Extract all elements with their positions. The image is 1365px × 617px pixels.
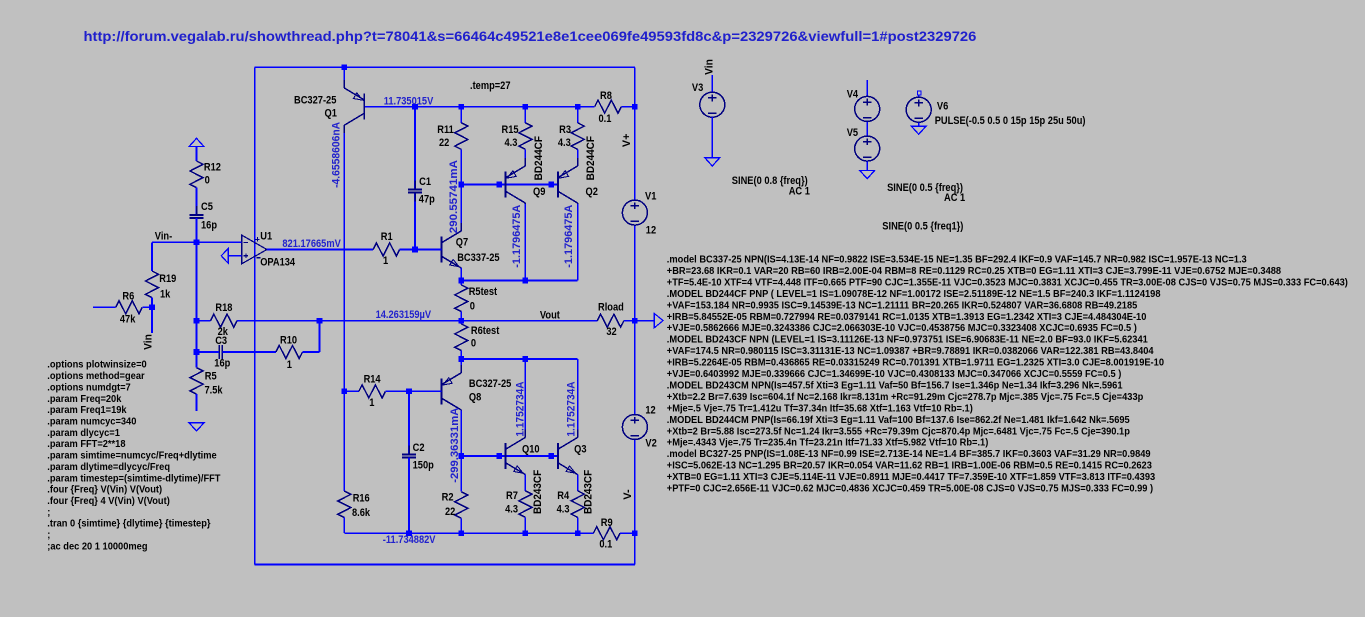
svg-text:R15: R15 bbox=[502, 124, 519, 136]
svg-text:1: 1 bbox=[287, 359, 292, 371]
svg-text:.param dlycyc=1: .param dlycyc=1 bbox=[47, 427, 120, 439]
transistor Q3 bbox=[557, 443, 559, 469]
voltage source V4 bbox=[855, 96, 880, 121]
resistor R16 bbox=[338, 491, 351, 518]
svg-text:R19: R19 bbox=[159, 273, 176, 285]
wire Q1 emitter to top border bbox=[343, 67, 345, 88]
wire op-amp output to R1 bbox=[267, 249, 373, 251]
svg-text:+Xtb=2 Br=5.88 Isc=273.5f Nc=1: +Xtb=2 Br=5.88 Isc=273.5f Nc=1.24 Ikr=3.… bbox=[667, 425, 1130, 437]
junction node (525.4,106.6) bbox=[523, 104, 529, 110]
capacitor C5 bbox=[189, 214, 203, 216]
svg-text:R6: R6 bbox=[122, 291, 134, 303]
svg-text:4.3: 4.3 bbox=[505, 137, 518, 149]
voltage source V2 bbox=[622, 415, 647, 440]
junction node (461.3,456) bbox=[459, 453, 465, 459]
wire right rail middle segment bbox=[634, 225, 636, 414]
svg-text:+Xtb=2.2 Br=7.639 Isc=604.1f N: +Xtb=2.2 Br=7.639 Isc=604.1f Nc=2.168 Ik… bbox=[667, 391, 1144, 403]
wire R6 left stub bbox=[93, 306, 116, 308]
svg-text:1k: 1k bbox=[160, 289, 171, 301]
svg-text:-299.36331mA: -299.36331mA bbox=[449, 408, 461, 483]
svg-text:0.1: 0.1 bbox=[599, 539, 612, 551]
svg-text:Q9: Q9 bbox=[533, 186, 545, 198]
svg-text:16p: 16p bbox=[214, 358, 230, 370]
svg-text:http://forum.vegalab.ru/showth: http://forum.vegalab.ru/showthread.php?t… bbox=[84, 28, 977, 44]
wire right rail lower segment bbox=[634, 440, 636, 534]
svg-text:.options plotwinsize=0: .options plotwinsize=0 bbox=[47, 359, 147, 371]
wire Q8 collector down to R2 bbox=[460, 410, 462, 491]
svg-text:32: 32 bbox=[606, 326, 616, 338]
wire R3 bottom to Q2 emitter bbox=[577, 149, 579, 166]
svg-text:R5: R5 bbox=[205, 370, 217, 382]
svg-text:821.17665mV: 821.17665mV bbox=[282, 238, 341, 250]
junction node (196.5,242.3) bbox=[194, 240, 200, 246]
svg-text:+Mje=.5 Vje=.75 Tr=1.412u Tf=3: +Mje=.5 Vje=.75 Tr=1.412u Tf=37.34n Itf=… bbox=[667, 402, 973, 414]
wire Q10 collector up bbox=[524, 359, 526, 438]
wire R10 up to Vout net bbox=[319, 321, 321, 352]
svg-text:.MODEL BD243CF NPN (LEVEL=1 IS: .MODEL BD243CF NPN (LEVEL=1 IS=3.11126E-… bbox=[667, 334, 1148, 346]
wire R5 top lead bbox=[196, 352, 198, 368]
svg-text:BC337-25: BC337-25 bbox=[457, 252, 499, 264]
svg-text:0: 0 bbox=[470, 300, 475, 312]
wire R15 top lead bbox=[524, 107, 526, 123]
svg-text:4.3: 4.3 bbox=[557, 504, 570, 516]
svg-text:290.55741mA: 290.55741mA bbox=[448, 160, 460, 233]
wire R11 top lead bbox=[460, 107, 462, 123]
wire R16 bottom lead bbox=[343, 518, 345, 534]
svg-text:22: 22 bbox=[445, 506, 455, 518]
transistor Q1 bbox=[363, 94, 365, 120]
svg-text:.param Freq1=19k: .param Freq1=19k bbox=[47, 404, 126, 416]
junction node (577.7,106.6) bbox=[575, 104, 581, 110]
wire R10 right lead bbox=[303, 351, 320, 353]
junction node (409,533.2) bbox=[406, 530, 412, 536]
wire R18 right to Vout net bbox=[237, 320, 597, 322]
op-amp U1 plus input mark bbox=[244, 255, 249, 257]
flag square above V6 bbox=[918, 91, 922, 95]
wire R5 bottom lead bbox=[196, 394, 198, 411]
voltage source V1 bbox=[622, 200, 647, 225]
svg-text:1: 1 bbox=[383, 255, 388, 267]
svg-text:C2: C2 bbox=[413, 442, 425, 454]
svg-text:R5test: R5test bbox=[469, 286, 498, 298]
wire R14 to Q8 base bbox=[385, 390, 441, 392]
svg-text:.MODEL BD244CF PNP ( LEVEL=1 I: .MODEL BD244CF PNP ( LEVEL=1 IS=1.09078E… bbox=[667, 288, 1161, 300]
svg-text:.tran 0 {simtime} {dlytime} {t: .tran 0 {simtime} {dlytime} {timestep} bbox=[47, 518, 210, 530]
svg-text:C3: C3 bbox=[215, 335, 227, 347]
wire Q10 Q3 base rail bbox=[461, 455, 558, 457]
wire C3 left lead bbox=[197, 351, 220, 353]
svg-text:R6test: R6test bbox=[471, 325, 500, 337]
resistor R5test bbox=[455, 285, 468, 312]
junction node (499.1,184.5) bbox=[496, 182, 502, 188]
svg-text:R9: R9 bbox=[601, 517, 613, 529]
svg-text:BD244CF: BD244CF bbox=[533, 136, 545, 181]
svg-text:;: ; bbox=[47, 506, 50, 518]
svg-text:Rload: Rload bbox=[598, 302, 624, 314]
wire Q3 emitter to R4 bbox=[577, 475, 579, 491]
resistor R9 bbox=[593, 527, 620, 540]
svg-text:+VAF=174.5 NR=0.980115 ISC=3.3: +VAF=174.5 NR=0.980115 ISC=3.31131E-13 N… bbox=[667, 345, 1154, 357]
wire R14 left junction to zigzag bbox=[344, 390, 359, 392]
svg-text:.param FFT=2**18: .param FFT=2**18 bbox=[47, 438, 125, 450]
svg-text:+BR=23.68 IKR=0.1 VAR=20 RB=60: +BR=23.68 IKR=0.1 VAR=20 RB=60 IRB=2.00E… bbox=[667, 265, 1281, 277]
wire Q3 collector up bbox=[577, 359, 579, 438]
junction node (196.5,352) bbox=[194, 349, 200, 355]
wire Q8 emitter lead bbox=[460, 359, 462, 373]
svg-text:+XTB=0 EG=1.11 XTI=3 CJE=5.114: +XTB=0 EG=1.11 XTI=3 CJE=5.114E-11 VJE=0… bbox=[667, 471, 1156, 483]
svg-text:V2: V2 bbox=[645, 437, 656, 449]
wire R18 left lead bbox=[197, 320, 211, 322]
svg-text:16p: 16p bbox=[201, 220, 217, 232]
svg-text:V4: V4 bbox=[847, 88, 859, 100]
junction node (344.3,67.3) bbox=[342, 65, 348, 71]
svg-text:-4.6558606nA: -4.6558606nA bbox=[330, 122, 342, 188]
svg-text:Vin: Vin bbox=[142, 334, 154, 350]
wire port to plus input bbox=[228, 255, 241, 257]
junction node (415,106.6) bbox=[412, 104, 418, 110]
svg-text:Vin-: Vin- bbox=[155, 231, 173, 243]
svg-text:1: 1 bbox=[369, 397, 374, 409]
op-amp U1 triangle bbox=[242, 235, 267, 264]
svg-text:.model BC327-25 PNP(IS=1.08E-1: .model BC327-25 PNP(IS=1.08E-13 NF=0.99 … bbox=[667, 448, 1151, 460]
svg-text:+Mje=.4343 Vje=.75 Tr=235.4n T: +Mje=.4343 Vje=.75 Tr=235.4n Tf=23.21n I… bbox=[667, 437, 989, 449]
junction node (525.4,359) bbox=[523, 356, 529, 362]
wire R19 bottom lead bbox=[151, 298, 153, 308]
svg-text:C1: C1 bbox=[419, 176, 431, 188]
svg-text:.param timestep=(simtime-dlyti: .param timestep=(simtime-dlytime)/FFT bbox=[47, 472, 221, 484]
svg-text:22: 22 bbox=[439, 137, 449, 149]
junction node (551.3,456) bbox=[549, 453, 555, 459]
resistor R6test bbox=[455, 324, 468, 351]
wire Q7 emitter rail bbox=[461, 280, 577, 282]
wire R1 to Q7 base bbox=[400, 249, 442, 251]
resistor R4 bbox=[571, 491, 584, 518]
wire V6 bottom lead bbox=[918, 123, 920, 126]
wire R12 to C5 bbox=[196, 188, 198, 215]
ground below R5 bbox=[189, 423, 204, 431]
svg-text:R2: R2 bbox=[442, 492, 454, 504]
wire C2 top lead bbox=[408, 391, 410, 454]
wire flag to R12 bbox=[196, 147, 198, 162]
svg-text:0.1: 0.1 bbox=[599, 113, 612, 125]
wire bottom border bbox=[255, 564, 635, 566]
wire Q9 collector down bbox=[524, 204, 526, 281]
wire V- bottom rail bbox=[344, 532, 593, 534]
svg-text:.four {Freq} V(Vin) V(Vout): .four {Freq} V(Vin) V(Vout) bbox=[47, 484, 162, 496]
svg-text:SINE(0 0.5 {freq1}): SINE(0 0.5 {freq1}) bbox=[882, 221, 963, 233]
resistor R12 bbox=[190, 161, 203, 188]
wire Rload right lead bbox=[624, 320, 635, 322]
wire V6 top stub bbox=[918, 95, 920, 98]
svg-text:.MODEL BD244CM PNP(Is=66.19f X: .MODEL BD244CM PNP(Is=66.19f Xti=3 Eg=1.… bbox=[667, 414, 1130, 426]
svg-text:V6: V6 bbox=[937, 100, 948, 112]
ground flag above R12 (rotated) bbox=[189, 138, 204, 146]
wire right rail to bottom border bbox=[634, 533, 636, 564]
svg-text:8.6k: 8.6k bbox=[352, 507, 371, 519]
svg-text:14.263159µV: 14.263159µV bbox=[376, 309, 432, 321]
svg-text:.param dlytime=dlycyc/Freq: .param dlytime=dlycyc/Freq bbox=[47, 461, 170, 473]
wire R6test bottom lead bbox=[460, 351, 462, 360]
svg-text:R8: R8 bbox=[600, 90, 612, 102]
wire left border (op-amp supply rail) bbox=[254, 67, 256, 564]
svg-text:BC327-25: BC327-25 bbox=[294, 95, 336, 107]
svg-text:-1.1796475A: -1.1796475A bbox=[563, 205, 575, 268]
svg-text:;ac dec 20 1 10000meg: ;ac dec 20 1 10000meg bbox=[47, 540, 147, 552]
transistor Q2 bbox=[557, 172, 559, 198]
svg-text:4.3: 4.3 bbox=[505, 504, 518, 516]
wire Vin- row bbox=[152, 241, 242, 243]
voltage source V5 bbox=[855, 136, 880, 161]
resistor R3 bbox=[571, 123, 584, 150]
transistor Q7 bbox=[440, 237, 442, 263]
svg-text:47p: 47p bbox=[419, 194, 435, 206]
svg-text:V3: V3 bbox=[692, 82, 703, 94]
svg-text:Q10: Q10 bbox=[522, 443, 540, 455]
junction node (634.9,320.7) bbox=[632, 318, 638, 324]
svg-text:+TF=5.4E-10 XTF=4 VTF=4.448 IT: +TF=5.4E-10 XTF=4 VTF=4.448 ITF=0.665 PT… bbox=[667, 276, 1348, 288]
svg-text:12: 12 bbox=[645, 404, 655, 416]
svg-text:+IRB=5.2264E-05 RBM=0.436865 R: +IRB=5.2264E-05 RBM=0.436865 RE=0.033152… bbox=[667, 357, 1164, 369]
resistor R8 bbox=[595, 100, 622, 113]
junction node (461.3,106.6) bbox=[459, 104, 465, 110]
capacitor C1 bbox=[408, 188, 422, 190]
junction node (461.3,320.7) bbox=[459, 318, 465, 324]
resistor R11 bbox=[455, 123, 468, 150]
junction node (461.3,280.5) bbox=[459, 278, 465, 284]
svg-text:R12: R12 bbox=[204, 162, 221, 174]
transistor Q10 bbox=[505, 443, 507, 469]
svg-text:;: ; bbox=[47, 529, 50, 541]
junction node (634.9,533.2) bbox=[632, 530, 638, 536]
wire R11 bottom / Q7 collector bbox=[460, 149, 462, 231]
resistor R15 bbox=[519, 123, 532, 150]
svg-text:V+: V+ bbox=[621, 134, 633, 148]
junction node (499.3,456) bbox=[497, 453, 503, 459]
wire R3 top lead bbox=[577, 107, 579, 123]
svg-text:.options method=gear: .options method=gear bbox=[47, 370, 144, 382]
wire R9 right lead bbox=[620, 532, 635, 534]
op-amp U1 plus supply mark bbox=[255, 238, 259, 240]
op-amp U1 minus input mark bbox=[244, 241, 249, 243]
svg-text:Q1: Q1 bbox=[325, 108, 337, 120]
op-amp U1 minus supply mark bbox=[256, 257, 260, 259]
junction node (525.4,280.5) bbox=[523, 278, 529, 284]
wire Q9 Q2 base rail bbox=[461, 184, 558, 186]
wire R8 right to rail bbox=[621, 106, 635, 108]
svg-text:V5: V5 bbox=[847, 127, 858, 139]
resistor R10 bbox=[276, 346, 303, 359]
junction node (319.5,320.7) bbox=[317, 318, 323, 324]
wire R7 bottom lead bbox=[524, 517, 526, 533]
svg-text:+ISC=5.062E-13 NC=1.295 BR=20.: +ISC=5.062E-13 NC=1.295 BR=20.57 IKR=0.0… bbox=[667, 460, 1152, 472]
svg-text:PULSE(-0.5 0.5 0 15p 15p 25u 5: PULSE(-0.5 0.5 0 15p 15p 25u 50u) bbox=[935, 115, 1086, 127]
junction node (196.5,320.7) bbox=[194, 318, 200, 324]
voltage source V6 bbox=[906, 97, 931, 122]
ground below V3 bbox=[705, 158, 720, 166]
wire Q2 collector down bbox=[577, 204, 579, 281]
wire V4 top stub bbox=[866, 80, 868, 96]
svg-text:R1: R1 bbox=[381, 231, 393, 243]
svg-text:AC 1: AC 1 bbox=[789, 185, 810, 197]
svg-text:V1: V1 bbox=[645, 190, 656, 202]
svg-text:+VAF=153.184 NR=0.9935 ISC=9.1: +VAF=153.184 NR=0.9935 ISC=9.14539E-13 N… bbox=[667, 299, 1138, 311]
wire R5test bottom lead bbox=[460, 312, 462, 321]
svg-text:.four {Freq} 4 V(Vin) V(Vout): .four {Freq} 4 V(Vin) V(Vout) bbox=[47, 495, 170, 507]
wire V+ top rail bbox=[364, 106, 594, 108]
resistor R18 bbox=[211, 314, 238, 327]
svg-text:R16: R16 bbox=[353, 492, 370, 504]
wire R6 right lead bbox=[142, 306, 152, 308]
wire V3 bottom lead bbox=[711, 117, 713, 157]
wire C5 to Vin- row bbox=[196, 218, 198, 242]
port arrow at op-amp plus input bbox=[221, 248, 228, 263]
svg-text:150p: 150p bbox=[413, 460, 434, 472]
wire R2 bottom lead bbox=[460, 518, 462, 533]
svg-text:.param numcyc=340: .param numcyc=340 bbox=[47, 416, 136, 428]
svg-text:C5: C5 bbox=[201, 201, 213, 213]
svg-text:Q3: Q3 bbox=[574, 443, 586, 455]
ground below V5 bbox=[860, 171, 875, 179]
junction node (577.7,533.2) bbox=[575, 530, 581, 536]
svg-text:-1.1796475A: -1.1796475A bbox=[511, 205, 523, 268]
ground below V6 bbox=[911, 126, 926, 134]
junction node (551.3,184.5) bbox=[549, 182, 555, 188]
svg-text:Vout: Vout bbox=[540, 310, 560, 322]
wire top border bbox=[255, 66, 635, 68]
wire Vin net stub bbox=[151, 307, 153, 333]
svg-text:AC 1: AC 1 bbox=[944, 192, 965, 204]
svg-text:+IRB=5.84552E-05 RBM=0.727994: +IRB=5.84552E-05 RBM=0.727994 RE=0.03791… bbox=[667, 311, 1147, 323]
wire C3 to R10 bbox=[222, 351, 276, 353]
svg-text:.temp=27: .temp=27 bbox=[470, 80, 511, 92]
wire C2 bottom lead bbox=[408, 458, 410, 534]
svg-text:+VJE=0.5862666 MJE=0.3243386 C: +VJE=0.5862666 MJE=0.3243386 CJC=2.06630… bbox=[667, 322, 1137, 334]
resistor R1 bbox=[373, 243, 400, 256]
wire C1 top lead bbox=[414, 107, 416, 190]
wire Q1 collector down to R14 node bbox=[343, 126, 345, 392]
resistor R7 bbox=[519, 491, 532, 518]
svg-text:47k: 47k bbox=[120, 313, 136, 325]
resistor R19 bbox=[146, 271, 159, 298]
wire R5test top lead bbox=[460, 281, 462, 285]
svg-text:0: 0 bbox=[471, 338, 476, 350]
wire Q8 emitter rail bbox=[461, 358, 577, 360]
transistor Q8 bbox=[440, 378, 442, 404]
wire Q10 emitter to R7 bbox=[524, 475, 526, 491]
svg-text:12: 12 bbox=[646, 225, 656, 237]
wire V4 to V5 bbox=[866, 122, 868, 136]
wire R4 bottom lead bbox=[577, 517, 579, 533]
wire to Vout port bbox=[635, 320, 654, 322]
svg-text:R4: R4 bbox=[557, 490, 570, 502]
wire R16 top (from R14 node) bbox=[343, 391, 345, 491]
wire R19 top lead bbox=[151, 242, 153, 271]
junction node (461.3,533.2) bbox=[459, 530, 465, 536]
transistor Q9 bbox=[505, 172, 507, 198]
svg-text:7.5k: 7.5k bbox=[205, 385, 224, 397]
wire right rail top segment bbox=[634, 67, 636, 200]
resistor R6 bbox=[116, 301, 143, 314]
svg-text:BD243CF: BD243CF bbox=[532, 470, 544, 514]
svg-text:R3: R3 bbox=[559, 124, 571, 136]
junction node (409,391.4) bbox=[406, 389, 412, 395]
svg-text:Q2: Q2 bbox=[586, 186, 598, 198]
svg-text:.model BC337-25 NPN(IS=4.13E-1: .model BC337-25 NPN(IS=4.13E-14 NF=0.982… bbox=[667, 254, 1247, 266]
junction node (461.3,359) bbox=[459, 356, 465, 362]
svg-text:R7: R7 bbox=[506, 490, 518, 502]
wire V3 top stub bbox=[711, 75, 713, 93]
svg-text:BD244CF: BD244CF bbox=[585, 136, 597, 181]
svg-text:BC327-25: BC327-25 bbox=[469, 378, 511, 390]
capacitor C2 bbox=[402, 454, 416, 456]
svg-text:R18: R18 bbox=[215, 302, 232, 314]
svg-text:.param Freq=20k: .param Freq=20k bbox=[47, 393, 121, 405]
voltage source V3 bbox=[700, 92, 725, 117]
resistor Rload bbox=[597, 314, 624, 327]
junction R6 R19 Vin bbox=[149, 305, 155, 311]
svg-text:0: 0 bbox=[205, 175, 210, 187]
wire node column down to feedback row bbox=[196, 242, 198, 352]
svg-text:.MODEL BD243CM NPN(Is=457.5f X: .MODEL BD243CM NPN(Is=457.5f Xti=3 Eg=1.… bbox=[667, 379, 1123, 391]
svg-text:+VJE=0.6403992 MJE=0.339666 CJ: +VJE=0.6403992 MJE=0.339666 CJC=1.34699E… bbox=[667, 368, 1122, 380]
svg-text:Vin: Vin bbox=[704, 59, 716, 75]
svg-text:+PTF=0 CJC=2.656E-11 VJC=0.62: +PTF=0 CJC=2.656E-11 VJC=0.62 MJC=0.4836… bbox=[667, 483, 1153, 495]
svg-text:11.735015V: 11.735015V bbox=[384, 95, 434, 107]
wire Q7 emitter down bbox=[460, 268, 462, 280]
svg-text:U1: U1 bbox=[260, 231, 272, 243]
svg-text:Q8: Q8 bbox=[469, 392, 481, 404]
svg-text:V-: V- bbox=[622, 489, 634, 500]
svg-text:4.3: 4.3 bbox=[558, 137, 571, 149]
wire R6test top lead bbox=[460, 321, 462, 324]
capacitor C3 bbox=[218, 345, 220, 359]
wire R15 bottom to Q9 emitter bbox=[524, 149, 526, 166]
junction node (461.3,184.5) bbox=[459, 182, 465, 188]
junction node (344.3,391.4) bbox=[342, 389, 348, 395]
svg-text:1.1752734A: 1.1752734A bbox=[566, 381, 578, 436]
port arrow Vout bbox=[654, 314, 663, 328]
wire C1 bottom lead bbox=[414, 193, 416, 250]
junction node (525.4,533.2) bbox=[523, 530, 529, 536]
wire V5 bottom lead bbox=[866, 162, 868, 170]
svg-text:1.1752734A: 1.1752734A bbox=[515, 381, 527, 436]
svg-text:Q7: Q7 bbox=[456, 236, 468, 248]
svg-text:R11: R11 bbox=[437, 124, 454, 136]
svg-text:.options numdgt=7: .options numdgt=7 bbox=[47, 381, 131, 393]
resistor R2 bbox=[455, 492, 468, 519]
svg-text:R10: R10 bbox=[280, 335, 297, 347]
svg-text:OPA134: OPA134 bbox=[260, 257, 296, 269]
resistor R5 bbox=[190, 368, 203, 395]
junction node (415,249.5) bbox=[412, 247, 418, 253]
svg-text:R14: R14 bbox=[364, 374, 382, 386]
junction node (634.9,106.6) bbox=[632, 104, 638, 110]
svg-text:.param simtime=numcyc/Freq+dly: .param simtime=numcyc/Freq+dlytime bbox=[47, 450, 217, 462]
resistor R14 bbox=[359, 385, 386, 398]
